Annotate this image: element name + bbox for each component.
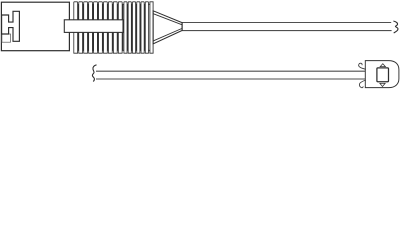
H slot lower-left box	[2, 34, 11, 42]
boot rib 7	[104, 2, 108, 54]
boot rib 15	[141, 2, 144, 54]
cone apex tick	[181, 22, 183, 31]
wire bottom row fill	[96, 71, 365, 80]
boot rib 14	[137, 2, 140, 54]
cone inner contour top	[153, 14, 182, 25]
cone inner contour bottom	[153, 29, 182, 41]
sensor clip bottom	[359, 80, 365, 88]
boot rib 12	[128, 2, 131, 54]
cone strain relief	[153, 11, 182, 44]
H slot glyph	[2, 11, 20, 41]
wire top row upper line	[182, 22, 391, 24]
boot rib 13	[132, 2, 135, 54]
wire bottom row upper line	[96, 70, 365, 72]
wire top row fill	[182, 22, 391, 31]
break squiggle bottom-left	[92, 65, 96, 82]
sensor clip top	[359, 63, 366, 69]
boot end cap	[150, 2, 153, 53]
sensor up arrow	[380, 64, 385, 67]
connector housing	[1, 2, 69, 51]
boot rib 5	[94, 2, 98, 54]
boot rib 16	[145, 2, 148, 54]
boot valley line top	[74, 3, 150, 5]
boot rib 1	[74, 2, 78, 54]
boot rib 4	[89, 2, 93, 54]
boot rib 3	[84, 2, 88, 54]
boot rib 8	[108, 2, 112, 54]
sensor head body	[365, 61, 399, 88]
boot rib 10	[118, 2, 122, 54]
boot rib 6	[99, 2, 103, 54]
boot rib 11	[124, 2, 127, 54]
break squiggle top-right	[393, 21, 398, 33]
boot rib 9	[113, 2, 117, 54]
flat tab blade	[64, 20, 123, 33]
sensor slot	[377, 68, 389, 82]
boot valley line bottom	[74, 49, 150, 51]
boot rib 2	[79, 2, 83, 54]
wire bottom row lower line	[96, 78, 365, 80]
wire top row lower line	[182, 30, 392, 32]
sensor down arrow	[380, 83, 385, 86]
